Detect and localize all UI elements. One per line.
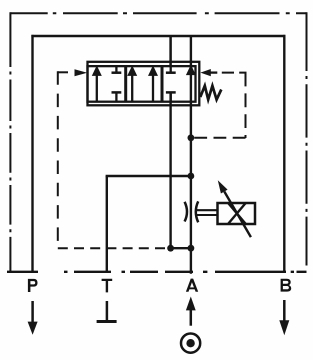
throttle adjuster X diagonal slash xyxy=(228,203,246,224)
pilot line dashed left horizontal xyxy=(58,71,68,73)
pilot arrow into valve left end xyxy=(75,69,88,76)
port P flow arrow down xyxy=(28,301,38,335)
housing outline right edge / B line xyxy=(283,35,285,272)
junction dot jog right xyxy=(188,245,195,252)
pilot line dashed left vertical xyxy=(57,71,59,248)
junction dot at A line xyxy=(188,173,195,180)
subplate interface chain border top xyxy=(10,12,306,14)
T line vertical xyxy=(106,176,108,272)
section 2 flow arrow up (right) xyxy=(148,65,158,101)
wire A line vertical (top edge through valve to port A) xyxy=(190,36,192,274)
check valve plate inner body xyxy=(88,66,196,102)
port label T xyxy=(102,279,113,293)
pilot line dashed right horizontal top xyxy=(222,72,247,74)
throttle restriction arc left xyxy=(185,202,187,222)
section 3 blocked port T-pair xyxy=(166,66,176,102)
throttle adjuster X diagonal backslash xyxy=(228,203,246,224)
junction dot jog left xyxy=(167,245,174,252)
section 1 blocked port T-pair xyxy=(112,66,122,102)
section 2 flow arrow up (left) xyxy=(127,65,137,101)
wire from top edge down to valve (left riser) xyxy=(169,36,172,67)
subplate interface chain border bottom xyxy=(7,271,307,273)
throttle adjuster stem upper xyxy=(197,209,218,211)
drain wire below valve (left riser down) xyxy=(169,94,171,249)
throttle restriction arc right xyxy=(196,201,198,222)
pilot arrow into valve right end xyxy=(200,69,217,76)
port T tank symbol xyxy=(97,301,117,322)
port label P xyxy=(28,279,38,292)
adjustability arrow through box xyxy=(218,180,251,237)
section 3 flow arrow up on A line xyxy=(186,65,196,76)
pilot line dashed right vertical xyxy=(245,73,247,138)
housing outline left edge / P line xyxy=(31,35,33,272)
check valve plate outer body xyxy=(88,62,200,106)
pilot line dashed run to A junction xyxy=(193,137,246,139)
throttle adjuster stem lower xyxy=(197,214,218,216)
valve section divider 1 xyxy=(124,66,127,102)
port label B xyxy=(281,279,292,292)
port A gauge circle with dot xyxy=(181,334,200,353)
subplate interface chain border left xyxy=(9,12,11,272)
spring on valve right end xyxy=(200,86,221,100)
port A flow arrow up xyxy=(186,297,196,326)
wire jog connecting drain to A line xyxy=(171,247,191,249)
junction dot pilot to A line xyxy=(188,134,195,141)
port label A xyxy=(186,279,198,292)
port B flow arrow down xyxy=(279,300,289,335)
subplate interface chain border right xyxy=(306,12,308,272)
throttle adjuster box xyxy=(218,203,256,224)
valve section divider 2 xyxy=(161,66,164,102)
wire from T line to A line xyxy=(106,175,191,177)
section 1 flow arrow up xyxy=(92,65,102,101)
pilot line dashed bottom run to junction xyxy=(58,247,167,249)
housing outline top edge xyxy=(31,35,285,37)
